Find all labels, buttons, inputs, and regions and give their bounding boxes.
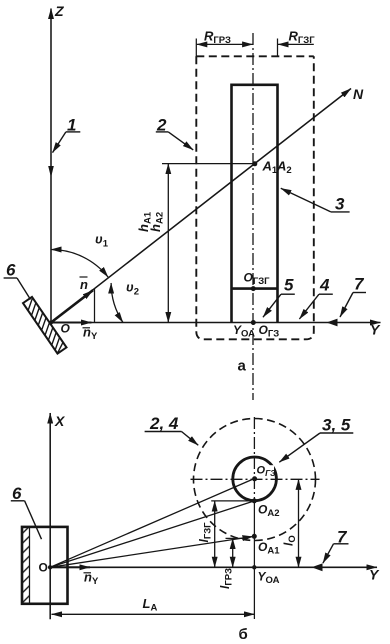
label 2,4 with leader (fig b): [145, 414, 199, 445]
O_GZ center dot (fig b): [252, 476, 257, 481]
R_GRZ dimension: [197, 29, 253, 47]
svg-text:RГРЗ: RГРЗ: [204, 29, 231, 47]
incident ray direction arrow on Z axis: [48, 166, 54, 178]
svg-text:7: 7: [354, 275, 365, 294]
extension line at rod right edge for R dimension: [277, 39, 279, 57]
label 6 with leader (fig a): [4, 261, 31, 300]
svg-text:Z: Z: [54, 3, 64, 19]
svg-text:LА: LА: [143, 596, 158, 614]
rod divider line at O_GZG: [232, 287, 278, 290]
h_A1 h_A2 dimension line: [167, 164, 169, 323]
svg-text:ОГЗ: ОГЗ: [259, 323, 280, 340]
svg-text:2, 4: 2, 4: [149, 414, 179, 433]
svg-text:lГРЗ: lГРЗ: [218, 568, 235, 589]
hazard zone dashed circle (items 2,4 fig b): [194, 419, 316, 541]
origin O dot (fig b): [48, 565, 52, 569]
label 2 with leader: [156, 116, 193, 150]
normal vector n: [51, 290, 93, 322]
svg-text:N: N: [353, 86, 364, 102]
R_GZG dimension: [278, 29, 315, 47]
svg-text:υ2: υ2: [126, 280, 139, 298]
extension line at O_A1 level: [226, 537, 247, 539]
label 1 with leader: [53, 116, 81, 153]
label 7 with leader (fig b): [323, 528, 349, 564]
flight direction solid arrow on Y axis (fig a): [327, 319, 338, 327]
hatched band boundary line: [29, 527, 31, 604]
svg-text:nY: nY: [83, 325, 98, 343]
svg-text:4: 4: [319, 276, 330, 295]
svg-text:3, 5: 3, 5: [322, 416, 351, 435]
nY vector (fig b): [50, 566, 90, 568]
horizontal center line through O_GZ (fig b): [191, 478, 320, 480]
point A1 A2 dot: [252, 161, 257, 166]
angle arc v1: [51, 250, 108, 278]
angle arc v2: [111, 283, 123, 323]
Y axis (fig a): [49, 322, 381, 324]
projection line from n tip to Y axis: [94, 289, 96, 323]
reflected ray to N: [51, 89, 351, 323]
l_O dimension: [282, 479, 299, 567]
svg-text:ОА1: ОА1: [258, 540, 280, 557]
svg-text:A1: A1: [262, 159, 278, 177]
vertical center line (fig b): [253, 417, 255, 501]
svg-text:O: O: [39, 561, 48, 575]
svg-text:υ1: υ1: [95, 232, 109, 250]
svg-text:3: 3: [335, 195, 345, 214]
svg-text:Y: Y: [369, 567, 380, 583]
extension line left for R dimension: [195, 39, 197, 62]
l_GRZ dimension: [218, 538, 235, 589]
ray O to O_GZ center: [50, 478, 255, 567]
svg-text:O: O: [61, 322, 71, 336]
label 3,5 with leader (fig b): [279, 416, 353, 463]
svg-text:lО: lО: [282, 535, 299, 546]
origin dot (fig a): [49, 321, 53, 325]
O_A2 dot (fig b): [252, 498, 257, 503]
extension line at A1 level: [162, 163, 255, 165]
svg-text:ОГЗГ: ОГЗГ: [244, 271, 271, 288]
ray O to O_A1: [50, 537, 253, 568]
nY label with bar (fig b): [84, 570, 99, 588]
vector nY (fig a): [51, 322, 92, 324]
svg-text:RГЗГ: RГЗГ: [289, 29, 316, 47]
label 3 with leader: [281, 188, 350, 213]
svg-text:а: а: [238, 358, 247, 375]
l_GZG dimension: [197, 501, 215, 567]
label 7 with leader (fig a): [340, 275, 366, 318]
mirror 6 (hatched strip, fig a): [23, 297, 67, 354]
svg-text:Y: Y: [370, 322, 381, 338]
label 5 with leader: [263, 276, 295, 318]
svg-text:n: n: [80, 277, 88, 292]
flight direction solid arrow on Y axis (fig b): [312, 563, 323, 571]
X axis (fig b): [49, 413, 51, 619]
svg-text:lГЗГ: lГЗГ: [197, 522, 214, 543]
label 4 with leader: [299, 276, 332, 320]
svg-text:ОА2: ОА2: [258, 503, 280, 520]
nY label with bar (fig a): [83, 325, 98, 343]
label 6 with leader (fig b): [11, 484, 42, 539]
mirror hatched face band (fig b): [22, 527, 30, 604]
mirror rectangle (fig b): [22, 527, 68, 604]
extension line at O_A2 level: [211, 500, 254, 502]
ray O to O_A2: [50, 501, 254, 567]
n label with bar: [80, 277, 89, 292]
rod circle (items 3,5 fig b): [233, 457, 277, 501]
O_GZG point dot: [251, 286, 256, 291]
O_A1 dot (fig b): [252, 534, 257, 539]
O_GZ point dot on axis: [251, 320, 256, 325]
center line (fig a): [252, 33, 254, 400]
svg-text:5: 5: [284, 276, 294, 295]
svg-text:YОА: YОА: [258, 570, 280, 587]
rod rectangle (item 3): [232, 85, 278, 323]
svg-text:6: 6: [6, 261, 16, 280]
svg-text:YОА: YОА: [233, 323, 255, 340]
svg-text:X: X: [54, 413, 66, 429]
vertical extension below circle to axis (fig b): [253, 501, 255, 567]
svg-text:nY: nY: [84, 570, 99, 588]
Z axis: [50, 9, 52, 323]
svg-text:б: б: [239, 626, 248, 643]
Y axis (fig b): [49, 566, 378, 568]
L_A dimension: [52, 596, 255, 614]
O_GZ label with mask (fig b): [257, 465, 277, 479]
Y_OA dot (fig b): [252, 565, 256, 569]
hazard zone dashed rectangle (items 2,4): [196, 56, 313, 339]
vertical extension below axis for L_A (fig b): [253, 567, 255, 619]
svg-text:A2: A2: [276, 159, 292, 177]
